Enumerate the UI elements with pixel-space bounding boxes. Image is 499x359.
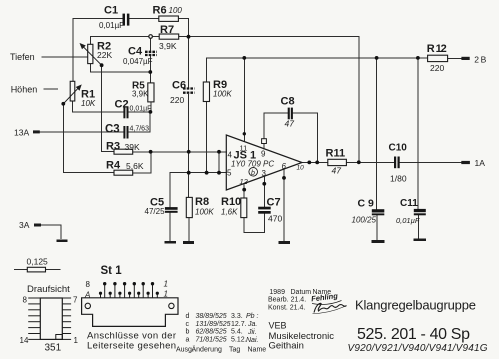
svg-text:R6: R6 xyxy=(153,5,167,17)
svg-text:Klangregelbaugruppe: Klangregelbaugruppe xyxy=(355,298,476,313)
svg-text:C3: C3 xyxy=(105,124,120,136)
svg-text:c: c xyxy=(186,321,190,328)
svg-text:Änderung: Änderung xyxy=(192,346,222,354)
svg-text:9: 9 xyxy=(261,150,266,159)
svg-text:5.12.: 5.12. xyxy=(231,337,247,344)
svg-text:1: 1 xyxy=(74,336,79,345)
svg-text:3,9K: 3,9K xyxy=(159,41,177,51)
svg-text:0,01µF: 0,01µF xyxy=(99,21,124,30)
svg-text:Nai.: Nai. xyxy=(246,337,259,344)
svg-text:C2: C2 xyxy=(115,99,129,111)
svg-text:R11: R11 xyxy=(326,148,346,160)
svg-text:Name: Name xyxy=(248,347,267,354)
svg-text:7: 7 xyxy=(73,296,78,305)
svg-text:0,01µF: 0,01µF xyxy=(396,216,420,225)
svg-text:Datum: Datum xyxy=(291,289,312,296)
svg-text:12.7.: 12.7. xyxy=(231,321,247,328)
svg-text:VEB: VEB xyxy=(269,321,287,331)
svg-text:47: 47 xyxy=(332,166,342,176)
svg-text:C10: C10 xyxy=(389,143,408,154)
svg-text:3.3.: 3.3. xyxy=(231,313,243,320)
svg-text:5.4.: 5.4. xyxy=(231,329,243,336)
svg-text:0,01µF: 0,01µF xyxy=(130,106,152,113)
svg-text:2 B: 2 B xyxy=(474,55,486,65)
svg-text:14: 14 xyxy=(20,336,29,345)
svg-text:3: 3 xyxy=(262,169,267,178)
svg-text:C8: C8 xyxy=(281,96,295,108)
svg-text:1Y0 709 PC: 1Y0 709 PC xyxy=(231,160,274,169)
svg-text:1,6K: 1,6K xyxy=(221,208,238,217)
svg-text:8: 8 xyxy=(86,280,91,289)
svg-text:Leiterseite gesehen: Leiterseite gesehen xyxy=(87,341,176,352)
svg-text:C6: C6 xyxy=(172,80,186,92)
svg-text:1989: 1989 xyxy=(269,289,285,296)
svg-text:1A: 1A xyxy=(475,158,486,168)
svg-text:71/81/525: 71/81/525 xyxy=(196,337,227,344)
svg-text:b: b xyxy=(251,170,255,177)
svg-text:a: a xyxy=(186,337,190,344)
svg-text:100K: 100K xyxy=(213,90,232,99)
svg-text:R 12: R 12 xyxy=(427,43,447,55)
svg-text:Pb :: Pb : xyxy=(246,313,259,320)
svg-text:5: 5 xyxy=(227,169,232,178)
svg-text:38/89/525: 38/89/525 xyxy=(196,313,227,320)
svg-text:100K: 100K xyxy=(195,208,214,217)
svg-text:3A: 3A xyxy=(19,220,30,230)
svg-text:3,9K: 3,9K xyxy=(132,90,149,99)
svg-text:0,125: 0,125 xyxy=(27,257,49,267)
svg-text:Tiefen: Tiefen xyxy=(10,52,35,62)
svg-text:1: 1 xyxy=(164,290,168,299)
svg-text:C4: C4 xyxy=(128,46,143,58)
svg-text:13A: 13A xyxy=(14,128,29,138)
svg-text:39K: 39K xyxy=(125,142,140,152)
svg-text:Tag: Tag xyxy=(229,347,240,354)
svg-text:351: 351 xyxy=(45,343,62,354)
svg-text:10K: 10K xyxy=(81,99,96,108)
svg-text:Bearb. 21.4.: Bearb. 21.4. xyxy=(268,297,306,304)
svg-text:6: 6 xyxy=(282,162,287,171)
svg-text:R8: R8 xyxy=(195,196,209,208)
svg-text:R7: R7 xyxy=(160,24,174,36)
svg-text:47: 47 xyxy=(285,119,295,129)
svg-text:0,047µF: 0,047µF xyxy=(123,57,153,66)
svg-text:b: b xyxy=(186,329,190,336)
svg-text:4,7/63: 4,7/63 xyxy=(130,126,150,133)
svg-text:R4: R4 xyxy=(106,160,121,172)
svg-text:C7: C7 xyxy=(267,197,281,209)
svg-text:5,6K: 5,6K xyxy=(126,161,144,171)
svg-text:220: 220 xyxy=(430,63,444,73)
svg-text:1/80: 1/80 xyxy=(390,174,407,184)
svg-text:V920/V921/V940/V941/V941G: V920/V921/V940/V941/V941G xyxy=(348,343,488,354)
svg-text:C 9: C 9 xyxy=(358,198,375,210)
svg-text:100/25: 100/25 xyxy=(352,216,377,225)
svg-text:A: A xyxy=(84,291,90,300)
svg-text:8: 8 xyxy=(23,296,28,305)
svg-text:C11: C11 xyxy=(400,198,418,209)
svg-text:10: 10 xyxy=(297,165,305,172)
svg-text:100: 100 xyxy=(169,6,183,15)
svg-text:Ja.: Ja. xyxy=(247,321,257,328)
svg-text:Geithain: Geithain xyxy=(269,341,304,352)
svg-text:1: 1 xyxy=(164,280,168,289)
svg-text:C1: C1 xyxy=(104,5,118,17)
svg-text:Höhen: Höhen xyxy=(11,85,38,95)
svg-text:R10: R10 xyxy=(221,196,241,208)
svg-text:47/25: 47/25 xyxy=(145,207,166,216)
svg-text:St 1: St 1 xyxy=(101,265,123,277)
svg-text:131/89/525: 131/89/525 xyxy=(196,321,231,328)
svg-text:220: 220 xyxy=(170,95,184,105)
svg-text:4: 4 xyxy=(228,151,233,160)
svg-text:Jii.: Jii. xyxy=(247,329,257,336)
svg-text:d: d xyxy=(186,313,190,320)
svg-text:R3: R3 xyxy=(106,141,120,153)
svg-text:22K: 22K xyxy=(97,50,112,60)
svg-text:525. 201 - 40 Sp: 525. 201 - 40 Sp xyxy=(357,326,470,343)
svg-text:62/88/525: 62/88/525 xyxy=(196,329,227,336)
svg-text:470: 470 xyxy=(268,214,282,224)
svg-text:12: 12 xyxy=(240,177,249,186)
svg-text:Konst. 21.4.: Konst. 21.4. xyxy=(268,305,305,312)
svg-text:Draufsicht: Draufsicht xyxy=(27,284,70,295)
